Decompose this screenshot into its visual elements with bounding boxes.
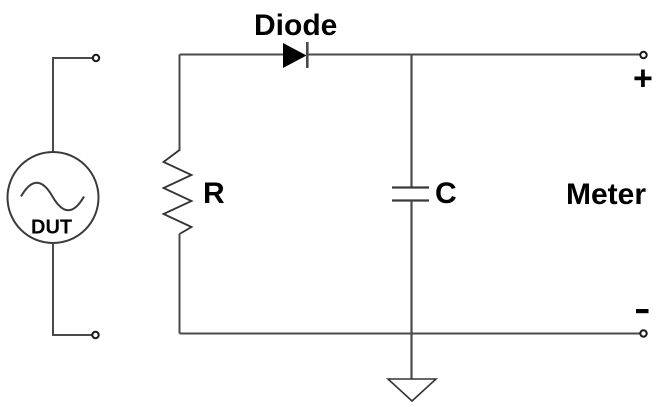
DUT top terminal node [93,55,99,61]
resistor R zigzag [164,150,192,234]
meter - terminal node [640,330,646,336]
label Diode [254,9,337,42]
label C [435,177,457,210]
svg-text:Diode: Diode [254,9,337,42]
AC source U1 (DUT) circle [8,152,99,243]
label DUT [31,217,72,239]
sine wave symbol inside source [21,183,84,211]
svg-text:C: C [435,177,457,210]
meter + terminal node [640,52,646,58]
DUT source bottom lead wire [53,243,92,335]
left branch wire from top wire to resistor [179,55,181,152]
wire from bottom junction down to ground [410,334,412,380]
ground symbol [388,379,436,401]
capacitor C1 top plate [392,186,429,188]
top wire (left segment, node A to diode) [180,54,285,56]
DUT bottom terminal node [92,332,98,338]
label R [203,177,225,210]
DUT source top lead wire [53,58,93,152]
middle branch wire from top wire to capacitor [410,55,412,188]
top wire (diode to meter + terminal) [306,54,641,56]
middle branch wire from capacitor to bottom wire [410,201,412,334]
svg-text:DUT: DUT [31,217,72,239]
bottom wire (left segment) [180,333,642,335]
label Meter [566,178,646,211]
svg-text:Meter: Meter [566,178,646,211]
diode D1 cathode bar [306,42,309,68]
svg-text:R: R [203,177,225,210]
left branch wire from resistor to bottom wire [179,234,181,334]
svg-text:+: + [633,60,653,98]
label - polarity [636,309,649,313]
label + polarity [633,60,653,98]
capacitor C1 bottom plate [392,199,429,201]
diode D1 anode triangle [283,43,307,68]
